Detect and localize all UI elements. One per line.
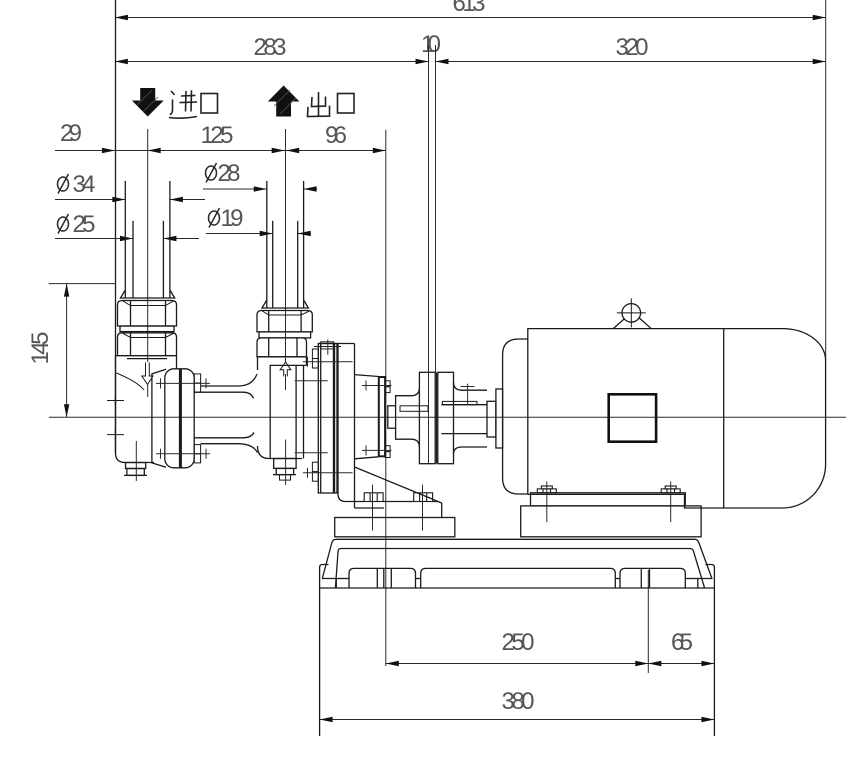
outlet hex nut upper — [257, 311, 312, 332]
bracket foot bolt 2 — [414, 485, 433, 531]
dimension phi28 — [203, 160, 317, 192]
inlet elbow body — [116, 356, 177, 463]
inlet pipe transition chamfer — [121, 290, 175, 298]
bracket (pump support) — [318, 344, 354, 509]
extension line left (x=115) also pump body left edge — [115, 0, 117, 453]
inlet union collar — [120, 326, 174, 332]
extension lines for 10 gap — [428, 45, 430, 464]
bracket gusset slant — [355, 467, 442, 503]
baseplate inner line — [335, 549, 704, 588]
dimension 145 (vertical) — [27, 284, 116, 418]
motor shaft boss — [496, 389, 503, 448]
pump pedestal — [335, 518, 455, 537]
main horizontal centerline — [49, 416, 846, 418]
outlet hex nut lower — [257, 338, 307, 357]
baseplate left foot tab — [320, 565, 337, 589]
outlet pipe transition chamfer — [262, 300, 308, 308]
motor fan cover — [503, 339, 528, 494]
svg-text:25: 25 — [73, 211, 96, 238]
outlet flow arrow (hollow up) — [280, 362, 291, 376]
svg-text:145: 145 — [27, 332, 54, 365]
dimension 380 — [320, 688, 715, 722]
svg-text:28: 28 — [218, 160, 241, 187]
inlet pipe inner walls (phi25) — [132, 221, 134, 298]
inlet elbow inner arc — [117, 373, 145, 390]
barrel between flanges — [194, 374, 257, 453]
extension line right (x=825.7) — [825, 0, 827, 361]
inlet pipe centerline — [147, 129, 149, 362]
bracket foot — [338, 494, 442, 518]
baseplate bottom line — [320, 587, 715, 589]
baseplate top profile — [322, 539, 712, 578]
motor main body — [528, 329, 826, 508]
coupling hub 1 — [396, 388, 420, 447]
motor pedestal — [521, 506, 701, 537]
shaft spacer — [388, 406, 396, 428]
outlet union collar — [259, 332, 311, 338]
front flange gasket (thick line) — [179, 369, 182, 468]
rear flange stack — [318, 344, 337, 494]
motor shaft lines — [441, 401, 487, 433]
bearing housing plate (thick) — [379, 377, 385, 456]
coupling pin — [461, 384, 475, 405]
svg-text:96: 96 — [325, 122, 347, 149]
coupling gap line — [436, 372, 438, 463]
rear bell housing — [355, 375, 379, 459]
reference extension line x=385.8 — [385, 130, 387, 666]
platform A slot lines — [377, 569, 391, 589]
svg-text:10: 10 — [421, 31, 441, 58]
label 出口 (outlet) — [308, 92, 355, 117]
svg-text:380: 380 — [502, 688, 535, 715]
svg-text:125: 125 — [201, 122, 234, 149]
platform C slot lines — [641, 569, 649, 589]
motor shaft step — [487, 401, 496, 437]
baseplate platform B (middle) — [421, 568, 616, 588]
dimension 613 — [115, 0, 826, 20]
outlet drain plug — [273, 440, 296, 485]
outlet pipe centerline — [285, 129, 287, 362]
motor junction box — [609, 394, 656, 441]
dimension phi25 — [55, 211, 199, 241]
svg-text:250: 250 — [502, 629, 535, 656]
label 进口 (inlet) — [169, 90, 218, 118]
rear flange bolt nubs left — [312, 349, 318, 481]
dimension 320 — [436, 34, 826, 64]
front casing flange — [165, 369, 194, 468]
platform valley steps — [336, 578, 698, 580]
svg-text:19: 19 — [221, 205, 244, 232]
coupling key 1 — [400, 406, 428, 412]
dimension 283 — [115, 34, 429, 64]
dimension phi19 — [206, 205, 311, 236]
eyebolt — [613, 298, 651, 328]
outlet pipe inner walls (phi19) — [272, 221, 274, 308]
inlet body neck shoulder — [127, 358, 167, 360]
baseplate right foot tab — [698, 565, 715, 589]
outlet body inner verticals — [270, 365, 303, 458]
motor body seam — [723, 329, 725, 508]
coupling hub 2 — [454, 382, 488, 454]
front flange hub chamfer left — [152, 369, 166, 467]
coupling disc 2 — [438, 372, 454, 463]
inlet hex nut upper — [118, 301, 177, 327]
baseplate platform A — [349, 568, 416, 588]
front flange tie-bolt lines — [156, 378, 210, 458]
rear flange top bolt — [314, 339, 341, 354]
svg-text:65: 65 — [671, 629, 693, 656]
inlet flow arrow (solid down) — [132, 88, 164, 117]
svg-text:29: 29 — [60, 120, 82, 147]
svg-text:34: 34 — [73, 171, 96, 198]
inlet pipe outer walls (phi34) — [124, 181, 126, 298]
inlet flow arrow (hollow down) — [142, 363, 153, 385]
dimension phi34 — [55, 171, 205, 202]
baseplate platform C — [620, 568, 685, 588]
motor foot plate — [531, 493, 686, 506]
svg-text:613: 613 — [453, 0, 486, 17]
outlet centerline lower — [285, 374, 287, 390]
motor foot bolt 2 — [661, 481, 680, 522]
dimension row 29 / 125 / 96 — [55, 120, 386, 153]
bearing plate bolt nubs — [385, 381, 390, 458]
front flange bolt nubs right — [194, 374, 200, 463]
outlet flow arrow (solid up) — [268, 86, 300, 117]
bracket foot bolt 1 — [364, 485, 383, 531]
outlet elbow body — [258, 357, 307, 459]
inlet drain plug — [124, 441, 147, 481]
small cross marks on inlet body wall — [107, 396, 124, 440]
bearing tie lines — [362, 381, 392, 456]
outlet pipe outer walls (phi28) — [266, 181, 268, 308]
svg-text:283: 283 — [254, 34, 287, 61]
base block left edge — [319, 588, 321, 736]
coupling disc 1 — [419, 372, 435, 463]
svg-text:320: 320 — [616, 34, 649, 61]
inlet hex nut lower — [118, 333, 177, 356]
rear flange tie-bolt lines — [295, 357, 353, 478]
base block right edge — [713, 588, 715, 736]
inlet centerline lower — [147, 384, 149, 397]
dimension 250 / 65 — [386, 570, 715, 673]
motor foot bolt 1 — [537, 481, 556, 522]
